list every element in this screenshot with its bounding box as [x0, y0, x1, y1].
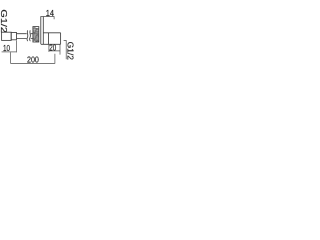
svg-text:G1/2: G1/2: [65, 42, 74, 61]
svg-text:200: 200: [27, 54, 39, 64]
svg-text:20: 20: [49, 42, 56, 52]
svg-text:G1/2: G1/2: [0, 9, 9, 33]
svg-text:10: 10: [3, 43, 10, 53]
svg-text:14: 14: [46, 8, 54, 18]
